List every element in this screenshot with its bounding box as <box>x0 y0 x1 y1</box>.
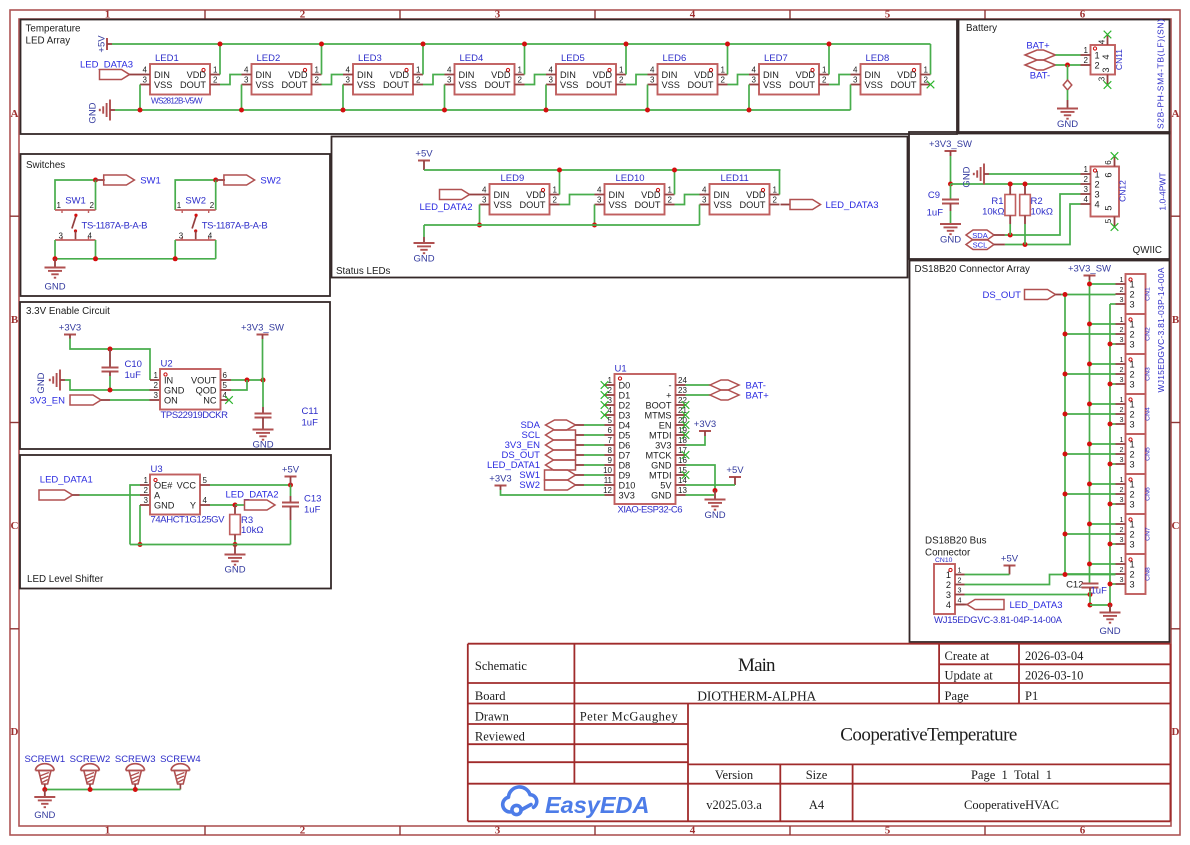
svg-text:VDD: VDD <box>897 70 917 80</box>
svg-text:3: 3 <box>143 76 148 85</box>
wire VSS drop (status) <box>699 205 701 226</box>
svg-text:10kΩ: 10kΩ <box>1031 207 1053 218</box>
svg-text:3: 3 <box>482 196 487 205</box>
svg-text:QWIIC: QWIIC <box>1133 245 1162 256</box>
LED LED3 <box>353 64 413 95</box>
svg-text:DIN: DIN <box>154 70 170 80</box>
svg-text:D1: D1 <box>619 390 631 400</box>
svg-text:1: 1 <box>773 186 778 195</box>
svg-text:WS2812B-V5/W: WS2812B-V5/W <box>151 97 203 106</box>
wire CN3 pin2 to data bus <box>1065 373 1116 375</box>
junction data bus CN3 <box>1063 372 1068 377</box>
svg-text:1: 1 <box>1130 279 1135 289</box>
wire VDD riser (status) <box>674 170 676 195</box>
wire CN7 pin3 to GND bus <box>1110 543 1116 545</box>
svg-text:6: 6 <box>223 371 228 380</box>
resistor R1 10k <box>1005 195 1016 216</box>
svg-text:SW2: SW2 <box>185 196 206 207</box>
junction R1 top <box>1008 182 1013 187</box>
svg-text:4: 4 <box>853 66 858 75</box>
svg-text:WJ15EDGVC-3.81-04P-14-00A: WJ15EDGVC-3.81-04P-14-00A <box>934 615 1063 626</box>
svg-text:D9: D9 <box>619 470 631 480</box>
section box LED Level Shifter <box>20 455 331 589</box>
svg-text:CN1: CN1 <box>1145 287 1152 301</box>
wire pin18 to +3V3 <box>686 436 706 445</box>
svg-text:Create at: Create at <box>945 649 990 663</box>
svg-text:VSS: VSS <box>560 80 578 90</box>
U1 pin 21 MTMS <box>676 414 686 416</box>
svg-text:VDD: VDD <box>390 70 410 80</box>
svg-text:DOUT: DOUT <box>281 80 307 90</box>
svg-text:2: 2 <box>1084 56 1089 65</box>
power flag +3V3_SW (enable out) <box>257 334 269 336</box>
svg-text:1uF: 1uF <box>304 505 321 516</box>
wire SW1 bottom loop <box>54 240 56 259</box>
junction BAT- / GND branch <box>1065 63 1070 68</box>
capacitor C10 <box>109 349 111 368</box>
svg-text:2: 2 <box>668 196 673 205</box>
svg-text:1: 1 <box>721 66 726 75</box>
wire BAT- to CN11 pin2 <box>1056 64 1081 66</box>
svg-text:3: 3 <box>1120 495 1124 504</box>
U1 pin 24 - <box>676 384 686 386</box>
svg-text:9: 9 <box>608 456 613 465</box>
junction at SW1 port <box>93 178 98 183</box>
svg-text:SCL: SCL <box>973 241 988 250</box>
wire VDD riser to +5V rail <box>727 44 729 75</box>
svg-text:1: 1 <box>213 66 218 75</box>
svg-text:+3V3_SW: +3V3_SW <box>929 139 972 150</box>
wire C9 to ground <box>950 211 952 224</box>
wire R1 bottom <box>1009 224 1011 235</box>
LED LED8 <box>861 64 921 95</box>
svg-text:13: 13 <box>678 486 687 495</box>
svg-text:CN7: CN7 <box>1145 527 1152 541</box>
junction +5V rail (status) <box>557 168 562 173</box>
svg-text:DOUT: DOUT <box>586 80 612 90</box>
svg-text:2: 2 <box>1095 179 1100 189</box>
junction on GND rail <box>747 108 752 113</box>
section box QWIIC <box>909 132 1170 259</box>
svg-text:1: 1 <box>924 66 929 75</box>
svg-text:3: 3 <box>650 76 655 85</box>
connector CN8 <box>1126 554 1146 594</box>
port SW2 <box>216 179 225 181</box>
svg-text:IN: IN <box>164 375 173 385</box>
section box Battery <box>959 20 1170 134</box>
svg-text:+3V3_SW: +3V3_SW <box>1068 264 1111 275</box>
connector CN12 <box>1091 167 1120 217</box>
svg-text:10kΩ: 10kΩ <box>241 525 263 536</box>
U1 pin 12 3V3 <box>605 494 615 496</box>
svg-text:VDD: VDD <box>641 190 661 200</box>
U1 pin 7 D6 <box>605 444 615 446</box>
svg-text:D0: D0 <box>619 380 631 390</box>
junction data bus CN7 <box>1063 532 1068 537</box>
LED LED2 <box>252 64 312 95</box>
svg-text:DIN: DIN <box>865 70 881 80</box>
junction GND bus CN3 <box>1108 382 1113 387</box>
svg-text:C9: C9 <box>928 190 940 201</box>
svg-text:SW1: SW1 <box>65 196 86 207</box>
svg-text:3: 3 <box>154 391 159 400</box>
wire DOUT to next DIN <box>525 75 547 85</box>
svg-text:21: 21 <box>678 406 687 415</box>
svg-text:2: 2 <box>946 580 951 590</box>
junction SW2 pin3 <box>173 256 178 261</box>
wire CN10 pin1 to +5V <box>965 574 1010 576</box>
junction on +5V rail <box>421 42 426 47</box>
section box Switches <box>21 154 331 296</box>
power flag +3V3_SW (DS18B20 array) <box>1084 275 1096 277</box>
svg-text:Status LEDs: Status LEDs <box>336 266 391 277</box>
svg-text:GND: GND <box>651 490 672 500</box>
svg-text:VSS: VSS <box>763 80 781 90</box>
power flag +5V (CN10) <box>1004 565 1016 567</box>
svg-text:Temperature: Temperature <box>26 24 82 35</box>
U1 pin 18 3V3 <box>676 444 686 446</box>
svg-text:VSS: VSS <box>662 80 680 90</box>
svg-text:1: 1 <box>1120 435 1124 444</box>
svg-text:3: 3 <box>346 76 351 85</box>
svg-text:Page: Page <box>945 689 970 703</box>
U1 pin 15 MTDI <box>676 474 686 476</box>
svg-text:VSS: VSS <box>357 80 375 90</box>
svg-text:v2025.03.a: v2025.03.a <box>706 798 762 812</box>
svg-text:4: 4 <box>346 66 351 75</box>
svg-text:+3V3: +3V3 <box>694 419 716 430</box>
wire C12 to GND bus <box>1090 604 1110 606</box>
svg-text:Drawn: Drawn <box>475 709 510 723</box>
svg-text:Peter McGaughey: Peter McGaughey <box>580 709 679 723</box>
svg-text:4: 4 <box>223 391 228 400</box>
wire VDD riser to +5V rail <box>625 44 627 75</box>
wire CN5 pin2 to data bus <box>1065 453 1116 455</box>
port SDA (bidirectional, QWIIC) <box>966 230 994 240</box>
port SCL (bidirectional, QWIIC) <box>966 240 994 250</box>
junction power bus CN5 <box>1087 442 1092 447</box>
svg-text:B: B <box>11 314 19 326</box>
svg-text:1: 1 <box>177 201 182 210</box>
wire LED_DATA1 to pin9 <box>584 464 605 466</box>
svg-text:VDD: VDD <box>288 70 308 80</box>
svg-text:2: 2 <box>1130 409 1135 419</box>
junction GND bus CN7 <box>1108 542 1113 547</box>
ground GND (status LEDs) <box>414 242 435 244</box>
connector CN4 <box>1126 394 1146 434</box>
svg-text:VDD: VDD <box>796 70 816 80</box>
junction power bus CN4 <box>1087 402 1092 407</box>
U1 pin 20 EN <box>676 424 686 426</box>
svg-text:DOUT: DOUT <box>890 80 916 90</box>
svg-text:2: 2 <box>1120 565 1124 574</box>
wire U3 GND pin to rail <box>139 505 141 545</box>
svg-text:1: 1 <box>144 476 149 485</box>
MCU U1 XIAO-ESP32-C6 <box>615 374 676 504</box>
U1 pin 19 MTDI <box>676 434 686 436</box>
svg-text:1: 1 <box>1120 475 1124 484</box>
svg-text:LED_DATA3: LED_DATA3 <box>1010 600 1063 611</box>
svg-text:P1: P1 <box>1025 689 1038 703</box>
wire BAT+ to CN11 pin1 <box>1056 54 1081 56</box>
junction data bus bottom <box>1063 572 1068 577</box>
svg-text:D6: D6 <box>619 440 631 450</box>
section box Temperature LED Array <box>21 20 958 135</box>
svg-text:DOUT: DOUT <box>789 80 815 90</box>
svg-text:3: 3 <box>1130 499 1135 509</box>
junction GND bus CN8 <box>1108 582 1113 587</box>
junction power bus CN3 <box>1087 362 1092 367</box>
svg-text:1: 1 <box>1130 319 1135 329</box>
svg-text:EasyEDA: EasyEDA <box>545 792 650 818</box>
svg-text:Main: Main <box>738 655 776 676</box>
svg-text:DOUT: DOUT <box>519 200 545 210</box>
svg-text:+5V: +5V <box>726 465 744 476</box>
wire CN5 pin3 to GND bus <box>1110 463 1116 465</box>
junction QOD join <box>245 378 250 383</box>
svg-text:CN10: CN10 <box>935 557 953 564</box>
U1 pin 11 D10 <box>605 484 615 486</box>
svg-text:3V3: 3V3 <box>655 440 671 450</box>
wire CN6 pin2 to data bus <box>1065 493 1116 495</box>
U1 pin 6 D5 <box>605 434 615 436</box>
junction data bus CN5 <box>1063 452 1068 457</box>
svg-text:4: 4 <box>1098 39 1107 44</box>
wire CN3 pin3 to GND bus <box>1110 383 1116 385</box>
svg-text:4: 4 <box>597 186 602 195</box>
svg-text:4: 4 <box>208 232 213 241</box>
svg-text:2: 2 <box>1120 405 1124 414</box>
wire CN8 pin3 to GND bus <box>1110 583 1116 585</box>
port BAT+ (U1) <box>686 394 711 396</box>
svg-text:VSS: VSS <box>865 80 883 90</box>
svg-text:5: 5 <box>885 825 891 837</box>
wire CN3 pin1 to power bus <box>1090 363 1116 365</box>
CN11 pin 4 (no connect) <box>1107 36 1109 46</box>
connector CN11 <box>1091 45 1116 75</box>
svg-text:DS18B20 Bus: DS18B20 Bus <box>925 536 987 547</box>
LED LED11 <box>710 184 770 215</box>
svg-text:3: 3 <box>1130 379 1135 389</box>
junction GND bus CN2 <box>1108 342 1113 347</box>
svg-text:10kΩ: 10kΩ <box>982 207 1004 218</box>
svg-text:4: 4 <box>244 66 249 75</box>
ground GND (switches) <box>54 259 56 268</box>
connector CN5 <box>1126 434 1146 474</box>
U2 pin4 NC (no connect) <box>221 399 229 401</box>
svg-text:1uF: 1uF <box>125 370 142 381</box>
power flag +3V3_SW (QWIIC) <box>945 150 957 152</box>
svg-text:3: 3 <box>1101 67 1111 72</box>
wire GND to U2 pin2 <box>65 380 150 390</box>
power flag +3V3 (U1 pin12) <box>495 485 507 487</box>
wire CN1 pin1 to power bus <box>1090 283 1116 285</box>
svg-text:3: 3 <box>1098 76 1107 81</box>
svg-text:LED7: LED7 <box>764 53 788 64</box>
junction at SW2 port <box>213 178 218 183</box>
svg-text:2: 2 <box>721 76 726 85</box>
svg-text:B: B <box>1172 314 1180 326</box>
svg-text:VDD: VDD <box>746 190 766 200</box>
svg-text:2: 2 <box>773 196 778 205</box>
svg-text:2: 2 <box>553 196 558 205</box>
svg-text:S2B-PH-SM4-TB(LF)(SN): S2B-PH-SM4-TB(LF)(SN) <box>1156 19 1166 129</box>
svg-text:VCC: VCC <box>177 480 197 490</box>
svg-text:DIOTHERM-ALPHA: DIOTHERM-ALPHA <box>697 688 816 703</box>
svg-text:1: 1 <box>1130 399 1135 409</box>
wire 3V3_EN to pin7 <box>584 444 605 446</box>
wire DOUT to next DIN <box>322 75 344 85</box>
junction SCREW2 <box>88 787 93 792</box>
wire VSS drop to GND rail <box>647 85 649 111</box>
svg-text:3: 3 <box>608 396 613 405</box>
svg-text:VDD: VDD <box>593 70 613 80</box>
connector CN2 <box>1126 314 1146 354</box>
capacitor C11 <box>262 380 264 407</box>
svg-text:GND: GND <box>413 254 434 265</box>
svg-text:LED Array: LED Array <box>26 36 71 47</box>
wire CN4 pin3 to GND bus <box>1110 423 1116 425</box>
power flag +3V3 (U1 pin18) <box>699 430 711 432</box>
svg-text:GND: GND <box>704 510 725 521</box>
svg-text:LED_DATA1: LED_DATA1 <box>40 475 93 486</box>
svg-text:14: 14 <box>678 476 687 485</box>
svg-text:1: 1 <box>1120 515 1124 524</box>
svg-text:VDD: VDD <box>694 70 714 80</box>
wire +3V3 to U2 IN <box>70 339 150 381</box>
section box DS18B20 Connector Array <box>910 261 1170 643</box>
svg-text:C10: C10 <box>125 359 142 370</box>
connector CN3 <box>1126 354 1146 394</box>
svg-text:R2: R2 <box>1031 196 1043 207</box>
svg-text:VSS: VSS <box>714 200 732 210</box>
wire CN10 pin2 to data bus <box>965 575 1116 585</box>
svg-text:4: 4 <box>203 496 208 505</box>
svg-text:BAT+: BAT+ <box>746 391 770 402</box>
wire CN5 pin1 to power bus <box>1090 443 1116 445</box>
svg-text:2: 2 <box>210 201 215 210</box>
svg-text:18: 18 <box>678 436 687 445</box>
svg-text:MTCK: MTCK <box>645 450 672 460</box>
power flag +5V (level shifter) <box>285 476 297 478</box>
power flag +5V (status LEDs) <box>418 160 430 162</box>
wire DOUT to next DIN <box>423 75 445 85</box>
svg-text:LED8: LED8 <box>866 53 890 64</box>
junction GND bus CN5 <box>1108 462 1113 467</box>
junction power bus CN1 <box>1087 282 1092 287</box>
svg-text:D7: D7 <box>619 450 631 460</box>
svg-text:3: 3 <box>244 76 249 85</box>
junction SW1 pin4 <box>93 256 98 261</box>
junction data bus CN6 <box>1063 492 1068 497</box>
svg-text:DIN: DIN <box>609 190 625 200</box>
svg-text:+3V3: +3V3 <box>59 323 81 334</box>
U1 pin 1 D0 <box>605 384 615 386</box>
svg-text:2: 2 <box>1130 529 1135 539</box>
svg-text:GND: GND <box>252 440 273 451</box>
svg-text:3: 3 <box>59 232 64 241</box>
CN11 pin 3 (no connect) <box>1107 75 1109 85</box>
wire CN10 pin3 to C12/GND <box>965 594 1091 596</box>
junction on GND rail <box>239 108 244 113</box>
svg-text:DOUT: DOUT <box>739 200 765 210</box>
section box 3.3V Enable Circuit <box>20 302 330 449</box>
svg-text:1: 1 <box>1120 395 1124 404</box>
svg-text:2: 2 <box>1120 525 1124 534</box>
wire pin16 GND <box>686 465 716 491</box>
svg-text:2: 2 <box>958 576 962 585</box>
wire LED_DATA1 to U3 A <box>80 494 141 496</box>
LED LED9 <box>490 184 550 215</box>
svg-text:23: 23 <box>678 386 687 395</box>
ground GND (DS18B20 array) <box>1109 605 1111 613</box>
svg-text:3: 3 <box>495 825 501 837</box>
svg-text:CN5: CN5 <box>1145 447 1152 461</box>
svg-text:4: 4 <box>1095 199 1100 209</box>
svg-text:U2: U2 <box>161 359 173 370</box>
wire VSS drop (status) <box>479 205 481 226</box>
svg-text:+5V: +5V <box>415 149 433 160</box>
svg-text:DOUT: DOUT <box>383 80 409 90</box>
svg-text:2: 2 <box>1120 285 1124 294</box>
wire SW2 to pin11 <box>584 484 605 486</box>
svg-text:4: 4 <box>702 186 707 195</box>
svg-text:+5V: +5V <box>1001 554 1019 565</box>
svg-text:MTDI: MTDI <box>649 430 671 440</box>
svg-text:VOUT: VOUT <box>191 375 217 385</box>
wire VOUT net <box>231 379 263 381</box>
svg-text:CN8: CN8 <box>1145 567 1152 581</box>
svg-text:XIAO-ESP32-C6: XIAO-ESP32-C6 <box>618 505 683 516</box>
svg-text:DOUT: DOUT <box>634 200 660 210</box>
wire pin14 to +5V <box>686 484 736 486</box>
junction Y / R3 / port <box>233 503 238 508</box>
svg-text:3: 3 <box>549 76 554 85</box>
svg-text:TS-1187A-B-A-B: TS-1187A-B-A-B <box>202 221 268 232</box>
junction on +5V rail <box>319 42 324 47</box>
junction power bus CN2 <box>1087 322 1092 327</box>
LED LED6 <box>658 64 718 95</box>
svg-text:LED6: LED6 <box>663 53 687 64</box>
ground GND (C11) <box>253 429 274 431</box>
U1 pin 14 5V <box>676 484 686 486</box>
svg-text:4: 4 <box>447 66 452 75</box>
wire DOUT to next DIN <box>728 75 750 85</box>
svg-text:+5V: +5V <box>282 465 300 476</box>
junction on GND rail <box>442 108 447 113</box>
no-connect diamond flag <box>1063 80 1072 90</box>
svg-text:1: 1 <box>315 66 320 75</box>
svg-text:3: 3 <box>702 196 707 205</box>
svg-text:1: 1 <box>1130 559 1135 569</box>
svg-text:C: C <box>1172 520 1180 532</box>
wire +3V3_SW drop <box>950 156 952 184</box>
svg-text:D5: D5 <box>619 430 631 440</box>
U1 pin 13 GND <box>676 494 686 496</box>
svg-text:GND: GND <box>44 282 65 293</box>
ground GND (C9) <box>940 223 961 225</box>
junction on +5V rail <box>827 42 832 47</box>
svg-text:Reviewed: Reviewed <box>475 729 526 743</box>
svg-text:2: 2 <box>1130 289 1135 299</box>
svg-text:3: 3 <box>1120 335 1124 344</box>
svg-text:2: 2 <box>300 825 306 837</box>
svg-text:1: 1 <box>1120 555 1124 564</box>
junction +5V rail (status) <box>672 168 677 173</box>
svg-text:LED10: LED10 <box>616 173 645 184</box>
svg-text:Y: Y <box>190 500 196 510</box>
svg-text:CooperativeTemperature: CooperativeTemperature <box>840 725 1017 746</box>
